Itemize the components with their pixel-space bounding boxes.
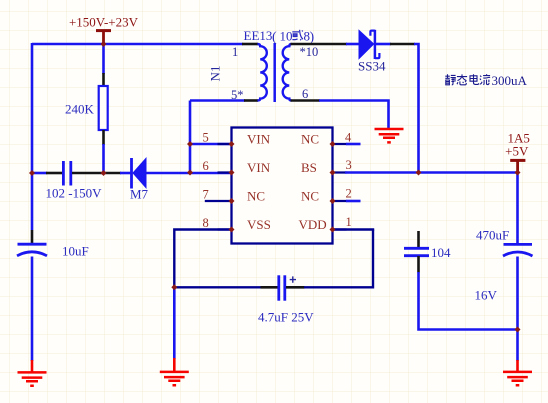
black wire transformer *10 to SS34 anode (291, 43, 348, 46)
black stub 104 bottom (417, 256, 420, 273)
ground G2 center bottom (160, 358, 189, 385)
junction dot x190 pin5 (187, 141, 193, 147)
svg-text:*10: *10 (300, 45, 319, 59)
wire left rail black stub into 10uF (31, 230, 34, 243)
svg-text:VSS: VSS (247, 217, 271, 232)
wire 5* horizontal (190, 99, 245, 102)
svg-text:10uF: 10uF (62, 244, 89, 259)
junction dot pin4 box (330, 141, 336, 147)
svg-text:104: 104 (431, 245, 451, 260)
svg-text:NC: NC (301, 189, 319, 204)
capacitor C 104 (404, 248, 429, 255)
wire resistor branch lower (102, 144, 105, 173)
svg-text:M7: M7 (130, 187, 149, 202)
svg-text:4.7uF 25V: 4.7uF 25V (258, 310, 314, 325)
resistor R 240K (99, 86, 108, 130)
junction dot left rail y=173 (29, 170, 35, 176)
label EE13 (10或8) (244, 28, 315, 45)
black stub secondary 6 (291, 99, 321, 102)
wire blue cathode lead (376, 43, 391, 46)
CJK 或 (292, 30, 303, 41)
svg-text:VDD: VDD (299, 217, 327, 232)
power symbol +150V-+23V (96, 31, 111, 43)
svg-text:16V: 16V (475, 288, 498, 303)
wire left rail lower to ground (31, 257, 34, 362)
junction dot resistor y=173 (101, 170, 107, 176)
junction dot bottom right (515, 327, 521, 333)
wire pin 5 (190, 143, 232, 146)
diode M7 (cathode bar left, triangle opening right) (132, 158, 147, 189)
ground G3 (transformer secondary) (375, 129, 404, 142)
junction dot 4.7uF left (171, 284, 177, 290)
wire pin 8 L path (navy) (174, 230, 231, 289)
IC pins right (navy) (333, 144, 347, 230)
svg-text:5*: 5* (231, 88, 244, 102)
svg-text:4: 4 (345, 131, 352, 145)
black wire from cap 102 through resistor junction to M7 (72, 172, 121, 175)
svg-text:2: 2 (346, 187, 352, 201)
svg-text:NC: NC (247, 189, 265, 204)
svg-text:BS: BS (301, 160, 317, 175)
black stub below resistor (102, 130, 105, 145)
junction dot pin7 box (229, 198, 235, 204)
black wire SS34 to corner (390, 43, 415, 46)
black stub into 104 top (417, 231, 420, 248)
capacitor C 10uF polarized (17, 244, 47, 256)
svg-text:10: 10 (280, 29, 293, 44)
core (273, 43, 276, 102)
black stub 4.7uF right (286, 286, 305, 289)
wire secondary 6 to ground G3 (319, 101, 389, 130)
junction dot pin8 box (229, 227, 235, 233)
wire pin 2 stub (346, 200, 361, 203)
svg-text:5: 5 (203, 131, 209, 145)
IC U1 box (232, 128, 333, 244)
transformer T1 EE13 (242, 43, 292, 102)
black stub into 4.7uF left (261, 286, 278, 289)
svg-text:+150V-+23V: +150V-+23V (69, 15, 139, 30)
wire 287 horizontal left part (navy) (174, 286, 261, 288)
svg-text:(: ( (272, 30, 277, 45)
wire pin 4 stub (346, 143, 361, 146)
svg-text:NC: NC (301, 132, 319, 147)
svg-text:240K: 240K (65, 102, 95, 117)
svg-text:EE13: EE13 (244, 28, 273, 43)
wire left rail upper (31, 43, 34, 230)
junction dot x190 pin6 (187, 170, 193, 176)
junction dot BS x418.5 (416, 170, 422, 176)
wire M7 to IC pin 6 (145, 172, 232, 175)
svg-text:3: 3 (346, 158, 352, 172)
wire VDD pin1 to x=373 (navy) (333, 228, 375, 230)
wire from junction down to ground G2 (173, 287, 176, 359)
diode SS34 schottky (359, 30, 379, 59)
svg-text:470uF: 470uF (476, 228, 509, 243)
junction dot pin5 box (229, 141, 235, 147)
svg-text:6: 6 (203, 159, 209, 173)
capacitor C 4.7uF polarized (279, 275, 296, 300)
capacitor C 102 (63, 161, 70, 186)
svg-text:8: 8 (203, 216, 209, 230)
junction dot pin3 box (330, 170, 336, 176)
primary winding (258, 44, 267, 101)
svg-text:1: 1 (346, 215, 352, 229)
wire BS pin3 to +5V rail (345, 171, 518, 174)
black stub into resistor top (102, 73, 105, 87)
svg-text:300uA: 300uA (492, 73, 528, 88)
wire corner to BS junction vertical x=418.5 (414, 44, 419, 174)
wire blue anode lead (346, 43, 360, 46)
wire y=173 from left rail to cap 102 (32, 172, 47, 175)
label 静态电流300uA (445, 73, 527, 88)
wire short blue before M7 bar (120, 172, 131, 175)
wire right vertical x=373 (navy) (372, 230, 374, 289)
junction dot pin6 box (229, 170, 235, 176)
junction dot pin1 box (330, 227, 336, 233)
svg-text:N1: N1 (208, 66, 223, 82)
capacitor C 470uF polarized (503, 244, 533, 256)
black stub top-left pin 1 (242, 43, 258, 46)
wire 104 down and right to +5V rail (419, 272, 518, 330)
IC pins left (navy) (205, 144, 232, 230)
junction dot pin2 box (330, 198, 336, 204)
black stub into winding 5* (244, 99, 258, 102)
ground G1 bottom left (18, 360, 47, 386)
wire top rail from left rail to transformer pin 1 (32, 43, 243, 46)
wire +5V rail lower to ground (516, 257, 519, 362)
black stub into cap 102 (46, 172, 62, 175)
svg-text:VIN: VIN (247, 132, 271, 147)
wire resistor branch upper (102, 44, 105, 74)
svg-text:VIN: VIN (247, 160, 271, 175)
svg-text:SS34: SS34 (358, 59, 386, 74)
secondary winding (283, 44, 292, 101)
svg-text:7: 7 (203, 188, 209, 202)
wire 287 horizontal right part (navy) (304, 286, 373, 288)
junction dot power/top rail (101, 41, 107, 47)
svg-text:6: 6 (302, 87, 308, 101)
svg-text:102 -150V: 102 -150V (46, 186, 103, 201)
ground G4 bottom right (503, 360, 532, 385)
junction dot +5V rail BS (515, 170, 521, 176)
wire +5V rail upper (516, 173, 519, 244)
svg-text:1: 1 (232, 45, 238, 59)
svg-text:+5V: +5V (505, 144, 529, 159)
power symbol +5V (510, 160, 525, 172)
wire vertical x=190 joining pin5/pin6 and 5* winding (189, 101, 192, 174)
